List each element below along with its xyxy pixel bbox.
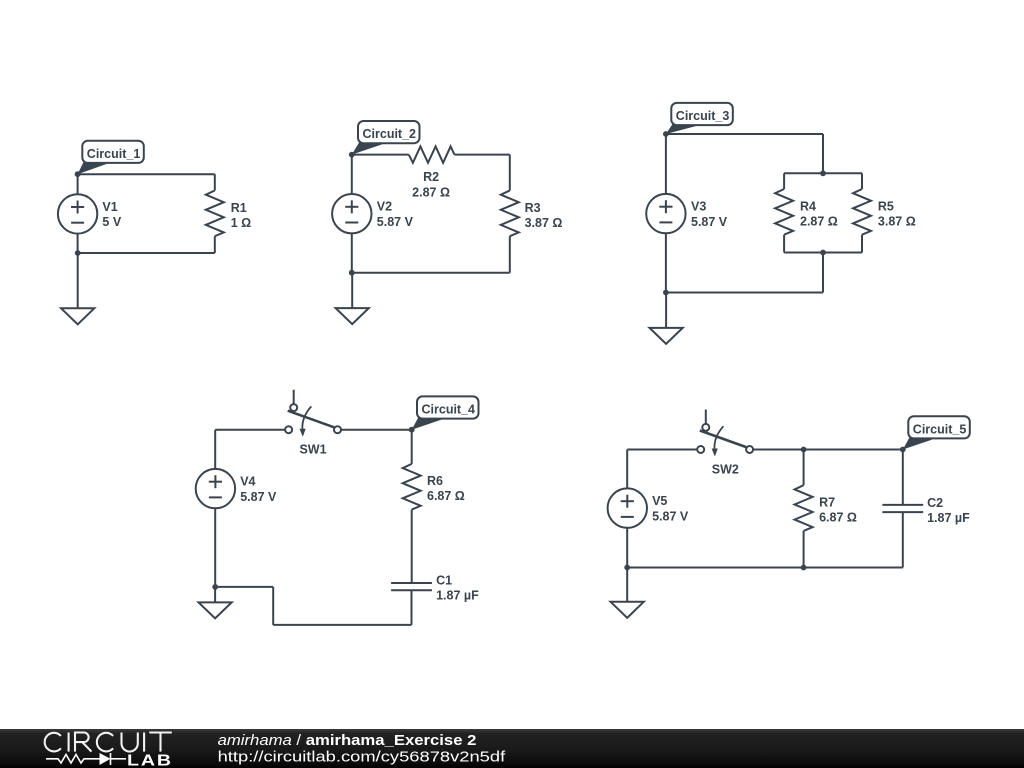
svg-text:LAB: LAB <box>127 753 173 768</box>
svg-text:amirhama / amirhama_Exercise 2: amirhama / amirhama_Exercise 2 <box>218 733 477 749</box>
svg-text:http://circuitlab.com/cy56878v: http://circuitlab.com/cy56878v2n5df <box>218 750 507 766</box>
